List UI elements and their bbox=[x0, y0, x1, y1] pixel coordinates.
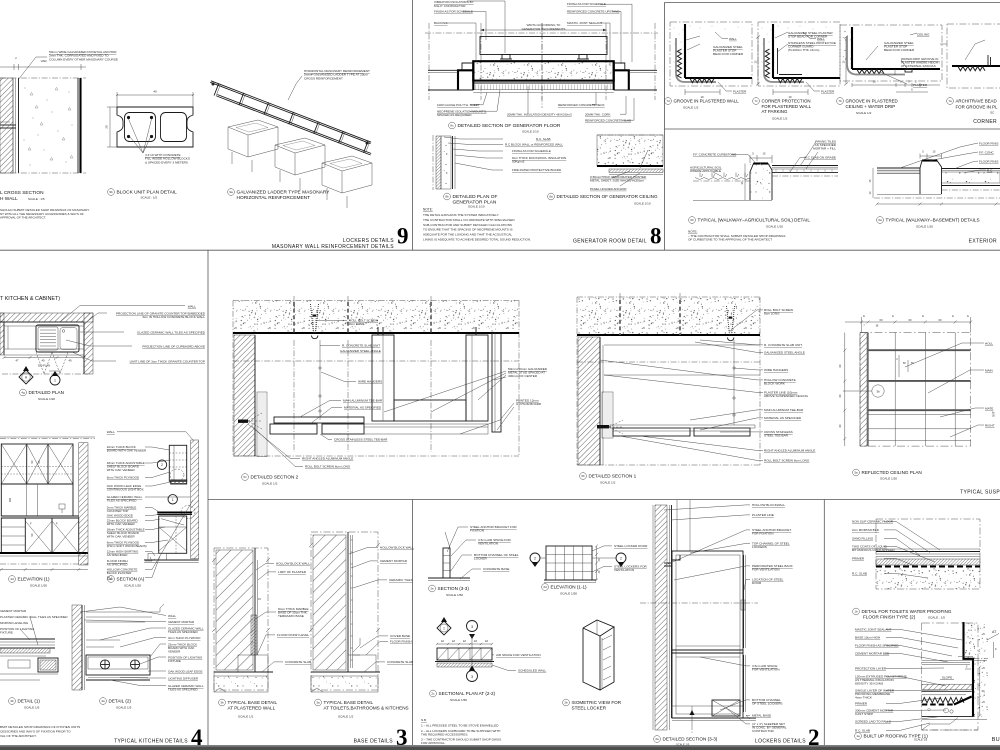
svg-text:TYPICAL (WALKWAY–AGRICULTURAL: TYPICAL (WALKWAY–AGRICULTURAL SOIL) DETA… bbox=[698, 218, 811, 223]
svg-text:SCALE 1/20: SCALE 1/20 bbox=[38, 397, 55, 401]
svg-text:OAK WOOD LEAF EDGE: OAK WOOD LEAF EDGE bbox=[168, 670, 203, 674]
svg-text:ELEVATION (1): ELEVATION (1) bbox=[18, 577, 50, 582]
svg-text:1b: 1b bbox=[854, 610, 858, 614]
svg-text:8cm LONG: 8cm LONG bbox=[764, 312, 780, 316]
svg-text:6mm THICK PLYWOOD: 6mm THICK PLYWOOD bbox=[107, 476, 140, 480]
svg-text:CROSS STAINLESS STEEL TEE-BAR: CROSS STAINLESS STEEL TEE-BAR bbox=[334, 438, 388, 442]
svg-text:CROSS REINFORCEMENT: CROSS REINFORCEMENT bbox=[304, 76, 343, 80]
svg-text:4b: 4b bbox=[10, 699, 14, 703]
svg-text:PRIMER: PRIMER bbox=[852, 557, 865, 561]
svg-text:SECTION (3-3): SECTION (3-3) bbox=[438, 586, 470, 591]
svg-text:STEEL TEE-BAR: STEEL TEE-BAR bbox=[764, 434, 789, 438]
svg-text:SCALE 1/2: SCALE 1/2 bbox=[856, 111, 872, 115]
svg-text:CONCRETE BASE: CONCRETE BASE bbox=[483, 567, 509, 571]
svg-text:AT PARKING: AT PARKING bbox=[762, 109, 788, 114]
svg-text:4g: 4g bbox=[21, 391, 25, 395]
svg-text:2: 2 bbox=[534, 557, 536, 561]
svg-text:DETAILED SECTION OF GENERATOR: DETAILED SECTION OF GENERATOR CEILING bbox=[557, 194, 659, 199]
svg-text:SCALE 1/5: SCALE 1/5 bbox=[24, 706, 40, 710]
svg-text:BU: BU bbox=[992, 737, 1000, 743]
svg-text:WITH OAK VENEER: WITH OAK VENEER bbox=[107, 535, 136, 539]
svg-text:AT EXTERNAL FASCIAS: AT EXTERNAL FASCIAS bbox=[901, 64, 936, 68]
svg-text:CEILING + WATER DRIP: CEILING + WATER DRIP bbox=[846, 104, 896, 109]
svg-text:WIRE HANGERS: WIRE HANGERS bbox=[764, 368, 788, 372]
svg-text:METAL SHEET. SIZE WH(30)*H(30): METAL SHEET. SIZE WH(30)*H(30)cm bbox=[590, 179, 644, 183]
svg-text:MATERIAL AS SPECIFIED: MATERIAL AS SPECIFIED bbox=[344, 406, 382, 410]
svg-text:TYPICAL BASE DETAIL: TYPICAL BASE DETAIL bbox=[324, 700, 374, 705]
svg-text:LOCKER: LOCKER bbox=[474, 557, 487, 561]
svg-text:1a: 1a bbox=[856, 734, 860, 738]
svg-text:TERRAZZO BASE: TERRAZZO BASE bbox=[278, 614, 304, 618]
svg-text:DENSITY 35 KG/M3: DENSITY 35 KG/M3 bbox=[855, 682, 883, 686]
svg-text:47: 47 bbox=[16, 359, 19, 363]
svg-text:180: 180 bbox=[8, 497, 12, 502]
svg-text:R. CONCRETE SLAB UNIT: R. CONCRETE SLAB UNIT bbox=[342, 344, 380, 348]
svg-text:3b: 3b bbox=[876, 390, 880, 394]
svg-text:2d: 2d bbox=[543, 585, 547, 589]
svg-text:STEEL LOCKER: STEEL LOCKER bbox=[572, 706, 607, 711]
svg-text:SECTIONAL PLAN AT (2-2): SECTIONAL PLAN AT (2-2) bbox=[439, 691, 496, 696]
svg-text:SPACED AS REQUIRED: SPACED AS REQUIRED bbox=[437, 113, 472, 117]
svg-text:2e: 2e bbox=[430, 587, 434, 591]
svg-text:CONTRACTOR: CONTRACTOR bbox=[752, 729, 775, 733]
svg-text:SCALE : 1/5: SCALE : 1/5 bbox=[928, 616, 945, 620]
svg-text:VAR.: VAR. bbox=[41, 59, 48, 63]
svg-text:APPROVAL OF THE ARCHITECT.: APPROVAL OF THE ARCHITECT. bbox=[0, 216, 46, 220]
svg-text:SUB-CONTRACTOR AND SUBMIT DETA: SUB-CONTRACTOR AND SUBMIT DETAILED CALCU… bbox=[423, 223, 512, 227]
svg-text:5a: 5a bbox=[854, 471, 858, 475]
svg-text:1: 1 bbox=[443, 626, 445, 630]
svg-text:ARCHITRAVE BEAD: ARCHITRAVE BEAD bbox=[956, 99, 997, 104]
svg-text:FOR APPROVAL.: FOR APPROVAL. bbox=[421, 741, 446, 745]
svg-text:GENERATOR REQUIREMENTS: GENERATOR REQUIREMENTS bbox=[522, 27, 566, 31]
svg-text:DETAIL (2): DETAIL (2) bbox=[109, 699, 132, 704]
svg-text:R.C. SLAB: R.C. SLAB bbox=[855, 729, 870, 733]
svg-text:MATE: MATE bbox=[985, 407, 993, 411]
svg-text:3: 3 bbox=[471, 625, 473, 629]
svg-text:R. CONCRETE SLAB UNIT: R. CONCRETE SLAB UNIT bbox=[764, 343, 802, 347]
svg-text:FIXATION: FIXATION bbox=[470, 529, 484, 533]
svg-text:1: 1 bbox=[172, 498, 174, 502]
svg-text:PLASTER: PLASTER bbox=[733, 90, 746, 94]
svg-text:LIMIT OF PLASTER: LIMIT OF PLASTER bbox=[278, 570, 307, 574]
svg-text:TYPICAL KITCHEN DETAILS: TYPICAL KITCHEN DETAILS bbox=[114, 739, 188, 745]
svg-text:BLOCK WORK: BLOCK WORK bbox=[764, 382, 786, 386]
svg-text:ROLL BOLT SCREW 8cm LONG: ROLL BOLT SCREW 8cm LONG bbox=[305, 465, 351, 469]
svg-text:R.C SLAB ON GRADE: R.C SLAB ON GRADE bbox=[805, 156, 836, 160]
svg-text:HOLLOW BLOCKWALL: HOLLOW BLOCKWALL bbox=[752, 503, 785, 507]
svg-text:300 PLAN: 300 PLAN bbox=[38, 364, 50, 368]
svg-text:LOCKERS DETAILS: LOCKERS DETAILS bbox=[755, 739, 806, 745]
svg-text:PLASTER CERAMIC WALL TILES AS: PLASTER CERAMIC WALL TILES AS SPECIFIED bbox=[0, 615, 68, 619]
svg-text:(5×100cm THK.×3mm): (5×100cm THK.×3mm) bbox=[788, 48, 819, 52]
svg-text:BITUMINOUS COLD APPLIED: BITUMINOUS COLD APPLIED bbox=[852, 548, 895, 552]
svg-text:R.C: R.C bbox=[987, 169, 993, 173]
svg-text:7a: 7a bbox=[948, 99, 952, 103]
svg-text:7d: 7d bbox=[666, 99, 670, 103]
svg-text:MASONARY WALL REINFORCEMENT DE: MASONARY WALL REINFORCEMENT DETAILS bbox=[272, 244, 394, 250]
svg-text:MATERIAL AS SPECIFIED: MATERIAL AS SPECIFIED bbox=[764, 416, 802, 420]
svg-text:BASE DETAILS: BASE DETAILS bbox=[354, 739, 394, 745]
svg-text:REFLECTED CEILING PLAN: REFLECTED CEILING PLAN bbox=[862, 470, 922, 475]
svg-text:VENTILATION: VENTILATION bbox=[614, 568, 634, 572]
svg-text:SCALE 1/30: SCALE 1/30 bbox=[30, 584, 47, 588]
svg-text:HOLLOW BLOCK WALL: HOLLOW BLOCK WALL bbox=[380, 546, 414, 550]
svg-text:BASE 10cm HIGH: BASE 10cm HIGH bbox=[855, 636, 880, 640]
svg-text:FLOOR FINISH LEVEL: FLOOR FINISH LEVEL bbox=[277, 633, 309, 637]
svg-text:MORTAR + FILL: MORTAR + FILL bbox=[813, 147, 836, 151]
svg-text:SCALE 1/10: SCALE 1/10 bbox=[766, 225, 783, 229]
svg-text:T KITCHEN & CABINET): T KITCHEN & CABINET) bbox=[0, 296, 60, 302]
svg-text:MAIN: MAIN bbox=[985, 369, 993, 373]
svg-text:PLASTER: PLASTER bbox=[913, 83, 928, 87]
svg-text:RIGHT ANGLED ALUMINUM ANGLE: RIGHT ANGLED ALUMINUM ANGLE bbox=[764, 449, 815, 453]
svg-text:AT PLASTERED WALL: AT PLASTERED WALL bbox=[228, 706, 276, 711]
svg-text:SCALE 1/10: SCALE 1/10 bbox=[522, 130, 539, 134]
svg-text:LIGHTING DIFFUSER: LIGHTING DIFFUSER bbox=[168, 677, 199, 681]
svg-text:2b: 2b bbox=[564, 701, 568, 705]
svg-text:SCALE 1/2: SCALE 1/2 bbox=[772, 117, 788, 121]
svg-text:CEMENT MORTAR: CEMENT MORTAR bbox=[380, 559, 408, 563]
svg-text:3mm THICK PLYWOOD: 3mm THICK PLYWOOD bbox=[168, 636, 201, 640]
svg-text:SLOPE: SLOPE bbox=[942, 676, 952, 680]
svg-text:N.B.: N.B. bbox=[421, 718, 427, 722]
svg-text:BMIT DETAILED SHOP DRAWINGS OF: BMIT DETAILED SHOP DRAWINGS OF KITCHEN U… bbox=[0, 725, 80, 729]
svg-text:VENEER: VENEER bbox=[168, 650, 181, 654]
svg-text:ISOMETRIC VIEW FOR: ISOMETRIC VIEW FOR bbox=[572, 700, 622, 705]
svg-text:FOR GROOVE IN PL: FOR GROOVE IN PL bbox=[956, 105, 999, 110]
svg-text:MAIN ALUMINUM TEE-BAR: MAIN ALUMINUM TEE-BAR bbox=[343, 399, 383, 403]
svg-text:TYPICAL BASE DETAIL: TYPICAL BASE DETAIL bbox=[228, 700, 278, 705]
svg-text:& SPACED EVERY 3 METERS: & SPACED EVERY 3 METERS bbox=[145, 160, 188, 164]
svg-text:SCALE 1/50: SCALE 1/50 bbox=[446, 593, 463, 597]
svg-text:CONCRETE SLAB: CONCRETE SLAB bbox=[285, 660, 311, 664]
svg-text:8a: 8a bbox=[549, 195, 553, 199]
svg-text:GALVANIZED STEEL ANGLE: GALVANIZED STEEL ANGLE bbox=[340, 349, 381, 353]
svg-text:SAND FILLING: SAND FILLING bbox=[852, 537, 874, 541]
svg-text:49: 49 bbox=[69, 359, 72, 363]
svg-text:SCALE 1/2: SCALE 1/2 bbox=[238, 715, 254, 719]
svg-text:5b: 5b bbox=[581, 474, 585, 478]
svg-text:RIGHT: RIGHT bbox=[985, 424, 995, 428]
svg-text:FLOOR FINIS: FLOOR FINIS bbox=[979, 142, 998, 146]
svg-text:TO ENSURE THAT THE SPACING OF: TO ENSURE THAT THE SPACING OF NEOPRENE M… bbox=[423, 228, 513, 232]
svg-text:H WALL: H WALL bbox=[0, 196, 18, 202]
svg-text:3cm IN HOLLOW CONCRETE BLOCK W: 3cm IN HOLLOW CONCRETE BLOCK WALL bbox=[142, 315, 205, 319]
svg-text:HORIZONTAL REINFORCEMENT: HORIZONTAL REINFORCEMENT bbox=[237, 195, 311, 201]
svg-text:2: 2 bbox=[161, 463, 163, 467]
svg-text:CONTINUOUS LIGHT BOX: CONTINUOUS LIGHT BOX bbox=[107, 488, 144, 492]
svg-text:SCALE 1/2: SCALE 1/2 bbox=[338, 715, 354, 719]
svg-text:CEMENT MORTAR BED: CEMENT MORTAR BED bbox=[855, 652, 890, 656]
svg-text:GALVANIZED LADDER TYPE MASONAR: GALVANIZED LADDER TYPE MASONARY bbox=[237, 190, 331, 196]
svg-text:10: 10 bbox=[872, 80, 876, 84]
svg-text:THE REQUIRED ACCESSORIES.: THE REQUIRED ACCESSORIES. bbox=[421, 733, 468, 737]
svg-text:2c: 2c bbox=[431, 692, 435, 696]
svg-text:3a: 3a bbox=[316, 701, 320, 705]
svg-text:WALL: WALL bbox=[168, 614, 176, 618]
svg-text:4a: 4a bbox=[101, 699, 105, 703]
svg-text:DETAILED PLAN OF: DETAILED PLAN OF bbox=[453, 194, 498, 200]
svg-text:WALL: WALL bbox=[188, 305, 197, 309]
svg-text:BEAD FOR CORNER: BEAD FOR CORNER bbox=[884, 48, 915, 52]
svg-text:20: 20 bbox=[105, 125, 109, 129]
svg-text:SCALE 1/20: SCALE 1/20 bbox=[124, 584, 141, 588]
svg-text:THE CONTRACTOR SHALL CO-ORDINA: THE CONTRACTOR SHALL CO-ORDINATE WITH SP… bbox=[423, 218, 515, 222]
svg-text:FLOOR FINISH TYPE (2): FLOOR FINISH TYPE (2) bbox=[863, 615, 916, 620]
svg-text:PLASTER LINE: PLASTER LINE bbox=[752, 513, 774, 517]
svg-text:DOOR: DOOR bbox=[752, 581, 762, 585]
svg-text:COUNTER TOP: COUNTER TOP bbox=[107, 509, 129, 513]
svg-text:DETAIL (1): DETAIL (1) bbox=[18, 699, 41, 704]
svg-text:FOR FIXATION: FOR FIXATION bbox=[752, 532, 773, 536]
svg-text:TILES AS SPECIFIED: TILES AS SPECIFIED bbox=[168, 630, 199, 634]
svg-text:4: 4 bbox=[191, 725, 203, 750]
svg-text:TYPICAL (WALKWAY–BASEMENT) DET: TYPICAL (WALKWAY–BASEMENT) DETAILS bbox=[886, 218, 980, 223]
svg-text:PLASTER: PLASTER bbox=[821, 90, 834, 94]
svg-text:SCALE 1/10: SCALE 1/10 bbox=[468, 205, 485, 209]
svg-text:DETAILED PLAN: DETAILED PLAN bbox=[29, 390, 64, 395]
svg-text:TILES AS SPECIFIED: TILES AS SPECIFIED bbox=[107, 499, 138, 503]
svg-text:5c: 5c bbox=[243, 475, 247, 479]
svg-text:(P3cm SOFT WOOD BEADS): (P3cm SOFT WOOD BEADS) bbox=[107, 544, 147, 548]
svg-text:GYPSUM BOARD: GYPSUM BOARD bbox=[516, 402, 542, 406]
svg-text:WITH OAK VENEER: WITH OAK VENEER bbox=[107, 522, 136, 526]
svg-text:LINING IS ADEQUATE TO ACHIEVE: LINING IS ADEQUATE TO ACHIEVE DESIRED TO… bbox=[423, 238, 531, 242]
svg-text:CEMENT MORTAR: CEMENT MORTAR bbox=[0, 609, 27, 613]
svg-text:COLUMN EVERY OTHER MASONARY CO: COLUMN EVERY OTHER MASONARY COURSE bbox=[49, 57, 118, 61]
svg-text:7c: 7c bbox=[754, 99, 758, 103]
svg-text:SECTION (A): SECTION (A) bbox=[117, 577, 145, 582]
svg-text:F.F. CONCRETE CURBSTONE: F.F. CONCRETE CURBSTONE bbox=[693, 153, 736, 157]
svg-text:STEEL LOCKER DOOR: STEEL LOCKER DOOR bbox=[614, 544, 648, 548]
svg-text:HOLLOW BLOCK WALL: HOLLOW BLOCK WALL bbox=[276, 562, 310, 566]
svg-text:WITH OAK VENEER: WITH OAK VENEER bbox=[107, 468, 136, 472]
svg-text:2: 2 bbox=[620, 557, 622, 561]
svg-text:ELEVATION (1-1): ELEVATION (1-1) bbox=[551, 585, 588, 590]
svg-text:COVER BASE: COVER BASE bbox=[390, 634, 410, 638]
svg-text:8: 8 bbox=[650, 224, 662, 249]
svg-text:REINFORCED CONCRETE DECK: REINFORCED CONCRETE DECK bbox=[558, 103, 605, 107]
svg-text:R.C. SLAB: R.C. SLAB bbox=[852, 572, 867, 576]
svg-text:CERAMIC TILES: CERAMIC TILES bbox=[389, 578, 413, 582]
svg-text:RIGHT ANGLED ALUMINUM ANGLE: RIGHT ANGLED ALUMINUM ANGLE bbox=[302, 457, 353, 461]
svg-text:AIR SPACE FOR VENTILATION: AIR SPACE FOR VENTILATION bbox=[496, 653, 541, 657]
svg-text:4c: 4c bbox=[109, 577, 113, 581]
svg-text:SCALE 1/5: SCALE 1/5 bbox=[676, 743, 690, 747]
svg-text:SCALE 1/10: SCALE 1/10 bbox=[634, 202, 651, 206]
svg-text:DETAIL FOR TOILETS WATER PROOF: DETAIL FOR TOILETS WATER PROOFING bbox=[862, 609, 952, 614]
svg-text:SCALE 1/20: SCALE 1/20 bbox=[880, 477, 897, 481]
svg-text:DETAILED SECTION 2: DETAILED SECTION 2 bbox=[251, 475, 299, 480]
svg-text:VAL OF THE ARCHITECT.: VAL OF THE ARCHITECT. bbox=[0, 734, 37, 738]
svg-text:PRIMER: PRIMER bbox=[855, 702, 868, 706]
svg-text:TILES AS SPECIFIED: TILES AS SPECIFIED bbox=[168, 688, 199, 692]
svg-text:4mm THICK: 4mm THICK bbox=[855, 696, 873, 700]
svg-text:VENTILATION: VENTILATION bbox=[478, 542, 498, 546]
svg-text:7b: 7b bbox=[838, 99, 842, 103]
svg-text:AT TOILETS,BATHROOMS & KITCHEN: AT TOILETS,BATHROOMS & KITCHENS bbox=[324, 706, 409, 711]
svg-text:WIRE HANGERS: WIRE HANGERS bbox=[358, 380, 382, 384]
svg-text:R.C BLOCK WALL or REINFORCED W: R.C BLOCK WALL or REINFORCED WALL bbox=[505, 143, 563, 147]
svg-text:EXTERIOR: EXTERIOR bbox=[969, 239, 997, 245]
svg-text:PROTECTION LAYER: PROTECTION LAYER bbox=[855, 667, 887, 671]
svg-text:SCREED LAID TO FALLS: SCREED LAID TO FALLS bbox=[855, 720, 891, 724]
svg-text:R.C. SLAB: R.C. SLAB bbox=[536, 137, 551, 141]
svg-text:SCALE 1/5: SCALE 1/5 bbox=[914, 738, 928, 742]
svg-text:9: 9 bbox=[397, 224, 409, 249]
svg-text:8b: 8b bbox=[445, 195, 449, 199]
svg-text:METAL BASE: METAL BASE bbox=[752, 714, 771, 718]
svg-text:BLOCK PLASTER: BLOCK PLASTER bbox=[107, 571, 133, 575]
svg-text:LOCKERS: LOCKERS bbox=[752, 545, 767, 549]
svg-text:FIRE RATED PROTECTIVE BOARD: FIRE RATED PROTECTIVE BOARD bbox=[512, 168, 562, 172]
svg-text:BEAD FOR CORNER: BEAD FOR CORNER bbox=[713, 52, 744, 56]
svg-text:MAIN ALUMINUM TEE-BAR: MAIN ALUMINUM TEE-BAR bbox=[764, 408, 804, 412]
svg-text:6b: 6b bbox=[690, 218, 694, 222]
svg-text:400mm OF CENTER: 400mm OF CENTER bbox=[508, 374, 538, 378]
svg-text:3: 3 bbox=[396, 725, 408, 750]
svg-text:8c: 8c bbox=[450, 124, 454, 128]
svg-text:SCALE : 1/5: SCALE : 1/5 bbox=[141, 196, 158, 200]
svg-text:GENERATOR ROOM DETAIL: GENERATOR ROOM DETAIL bbox=[573, 239, 647, 245]
svg-text:FIXTURE: FIXTURE bbox=[168, 659, 181, 663]
svg-text:20MM THK. INSULATION DENSITY 4: 20MM THK. INSULATION DENSITY 48 KGS/m3 bbox=[507, 112, 572, 116]
svg-text:CONCRETE SLAB: CONCRETE SLAB bbox=[387, 660, 413, 664]
svg-text:ROLL BOLT SCREW 8cm LONG: ROLL BOLT SCREW 8cm LONG bbox=[764, 459, 810, 463]
svg-text:TYPICAL SUSP: TYPICAL SUSP bbox=[960, 490, 1000, 496]
svg-text:ABOVE SUSPENDED CEILING: ABOVE SUSPENDED CEILING bbox=[764, 394, 809, 398]
svg-text:FOR VENTILATION: FOR VENTILATION bbox=[752, 668, 779, 672]
svg-text:SCALE 1/50: SCALE 1/50 bbox=[450, 698, 467, 702]
svg-text:20MM THK. CORK: 20MM THK. CORK bbox=[585, 112, 610, 116]
svg-text:AS SPECIFIED: AS SPECIFIED bbox=[107, 553, 129, 557]
svg-text:WALL: WALL bbox=[729, 37, 737, 41]
svg-text:CORNER: CORNER bbox=[973, 119, 997, 125]
svg-text:50Kg/m3: 50Kg/m3 bbox=[512, 160, 525, 164]
svg-text:GLAZED CERAMIC WALL TILES AS S: GLAZED CERAMIC WALL TILES AS SPECIFIED bbox=[137, 331, 206, 335]
svg-text:WHERE APPLICABLE: WHERE APPLICABLE bbox=[690, 169, 721, 173]
svg-text:4d: 4d bbox=[10, 577, 14, 581]
svg-text:OAK WOOD EDGE: OAK WOOD EDGE bbox=[107, 514, 133, 518]
svg-text:SCALE : 1/5: SCALE : 1/5 bbox=[28, 197, 45, 201]
svg-text:L CROSS SECTION: L CROSS SECTION bbox=[0, 190, 44, 196]
svg-text:SCALE 1/2: SCALE 1/2 bbox=[683, 106, 699, 110]
svg-text:GALVANIZED STEEL ANGLE: GALVANIZED STEEL ANGLE bbox=[764, 351, 805, 355]
svg-text:FLOOR FINISH: FLOOR FINISH bbox=[390, 640, 412, 644]
svg-text:OF STEEL LOCKERS: OF STEEL LOCKERS bbox=[752, 702, 783, 706]
svg-text:SCALE 1/50: SCALE 1/50 bbox=[560, 592, 577, 596]
svg-text:OF CURBSTONE TO THE APPROVAL O: OF CURBSTONE TO THE APPROVAL OF THE ARCH… bbox=[688, 238, 772, 242]
svg-text:3: 3 bbox=[471, 675, 473, 679]
svg-text:CAST STRIP: CAST STRIP bbox=[855, 712, 873, 716]
svg-text:2: 2 bbox=[808, 725, 820, 750]
svg-text:STOP BEAD FOR CORNER: STOP BEAD FOR CORNER bbox=[788, 35, 828, 39]
svg-text:CEMENT MORTAR: CEMENT MORTAR bbox=[168, 620, 195, 624]
svg-text:1 – ALL PRESSED STEEL TO BE ST: 1 – ALL PRESSED STEEL TO BE STOVE ENAMEL… bbox=[421, 724, 499, 728]
svg-text:MORTAR LEVELING: MORTAR LEVELING bbox=[0, 621, 29, 625]
svg-text:PANEL HOLDER ANCHOR: PANEL HOLDER ANCHOR bbox=[590, 187, 627, 191]
svg-text:F.F. CONC: F.F. CONC bbox=[979, 151, 995, 155]
svg-text:2cm MORTAR BED: 2cm MORTAR BED bbox=[852, 528, 880, 532]
svg-text:3b: 3b bbox=[220, 701, 224, 705]
svg-text:LIMIT LINE OF 3cm THICK GRANIT: LIMIT LINE OF 3cm THICK GRANITE COUNTER … bbox=[130, 360, 205, 364]
svg-text:6a: 6a bbox=[878, 218, 882, 222]
svg-text:BOARD WITH OAK VENEER: BOARD WITH OAK VENEER bbox=[107, 449, 147, 453]
svg-text:CESSORIES AND WAYS OF FIXATION: CESSORIES AND WAYS OF FIXATION PRIOR TO bbox=[0, 730, 71, 734]
svg-text:9b: 9b bbox=[109, 190, 113, 194]
svg-text:SCALE 1/2: SCALE 1/2 bbox=[600, 481, 616, 485]
svg-text:DETAILED SECTION 1: DETAILED SECTION 1 bbox=[589, 474, 637, 479]
svg-text:SCALE 1/5: SCALE 1/5 bbox=[116, 706, 132, 710]
svg-text:ADEQUATE FOR THE LOADING AND T: ADEQUATE FOR THE LOADING AND THAT THE AC… bbox=[423, 233, 512, 237]
svg-text:AS SPECIFIED: AS SPECIFIED bbox=[107, 563, 129, 567]
svg-text:NOTE:: NOTE: bbox=[423, 208, 433, 212]
svg-text:FINISH AS FOR SCHEDULE: FINISH AS FOR SCHEDULE bbox=[512, 149, 551, 153]
svg-text:SCALE 1/10: SCALE 1/10 bbox=[916, 225, 933, 229]
svg-text:DETAILED SECTION (3-3): DETAILED SECTION (3-3) bbox=[663, 737, 718, 742]
svg-text:HOLL: HOLL bbox=[985, 342, 993, 346]
svg-text:WALL: WALL bbox=[107, 430, 116, 434]
svg-text:FOR VENTILATION: FOR VENTILATION bbox=[752, 568, 779, 572]
svg-text:FLOOR FINIS: FLOOR FINIS bbox=[979, 160, 998, 164]
svg-text:M.E.P. CONTRACTOR: M.E.P. CONTRACTOR bbox=[434, 4, 466, 8]
svg-text:40: 40 bbox=[153, 90, 157, 94]
svg-text:GROOVE IN PLASTERED WALL: GROOVE IN PLASTERED WALL bbox=[674, 99, 740, 104]
svg-text:FIXTURE: FIXTURE bbox=[0, 631, 13, 635]
svg-text:49: 49 bbox=[42, 359, 45, 363]
svg-text:9a: 9a bbox=[229, 190, 233, 194]
svg-text:2a: 2a bbox=[655, 737, 659, 741]
svg-text:SCHEDULED WALL: SCHEDULED WALL bbox=[518, 669, 547, 673]
svg-text:8cm LONG: 8cm LONG bbox=[349, 322, 365, 326]
svg-text:THE DETAIL EXPLAINS THE SYSTEM: THE DETAIL EXPLAINS THE SYSTEM INDICATIV… bbox=[423, 213, 499, 217]
svg-text:SCALE 1/2: SCALE 1/2 bbox=[262, 482, 278, 486]
svg-text:1: 1 bbox=[54, 379, 56, 383]
svg-text:DETAILED SECTION OF GENERATOR: DETAILED SECTION OF GENERATOR FLOOR bbox=[458, 123, 561, 129]
svg-text:SC: SC bbox=[990, 111, 995, 115]
svg-text:CEILING: CEILING bbox=[917, 33, 930, 37]
svg-text:MASTIC JOINT SEALANT: MASTIC JOINT SEALANT bbox=[567, 21, 602, 25]
svg-text:PROJECTION LINE OF CUPBAORD AB: PROJECTION LINE OF CUPBAORD ABOVE bbox=[142, 345, 205, 349]
